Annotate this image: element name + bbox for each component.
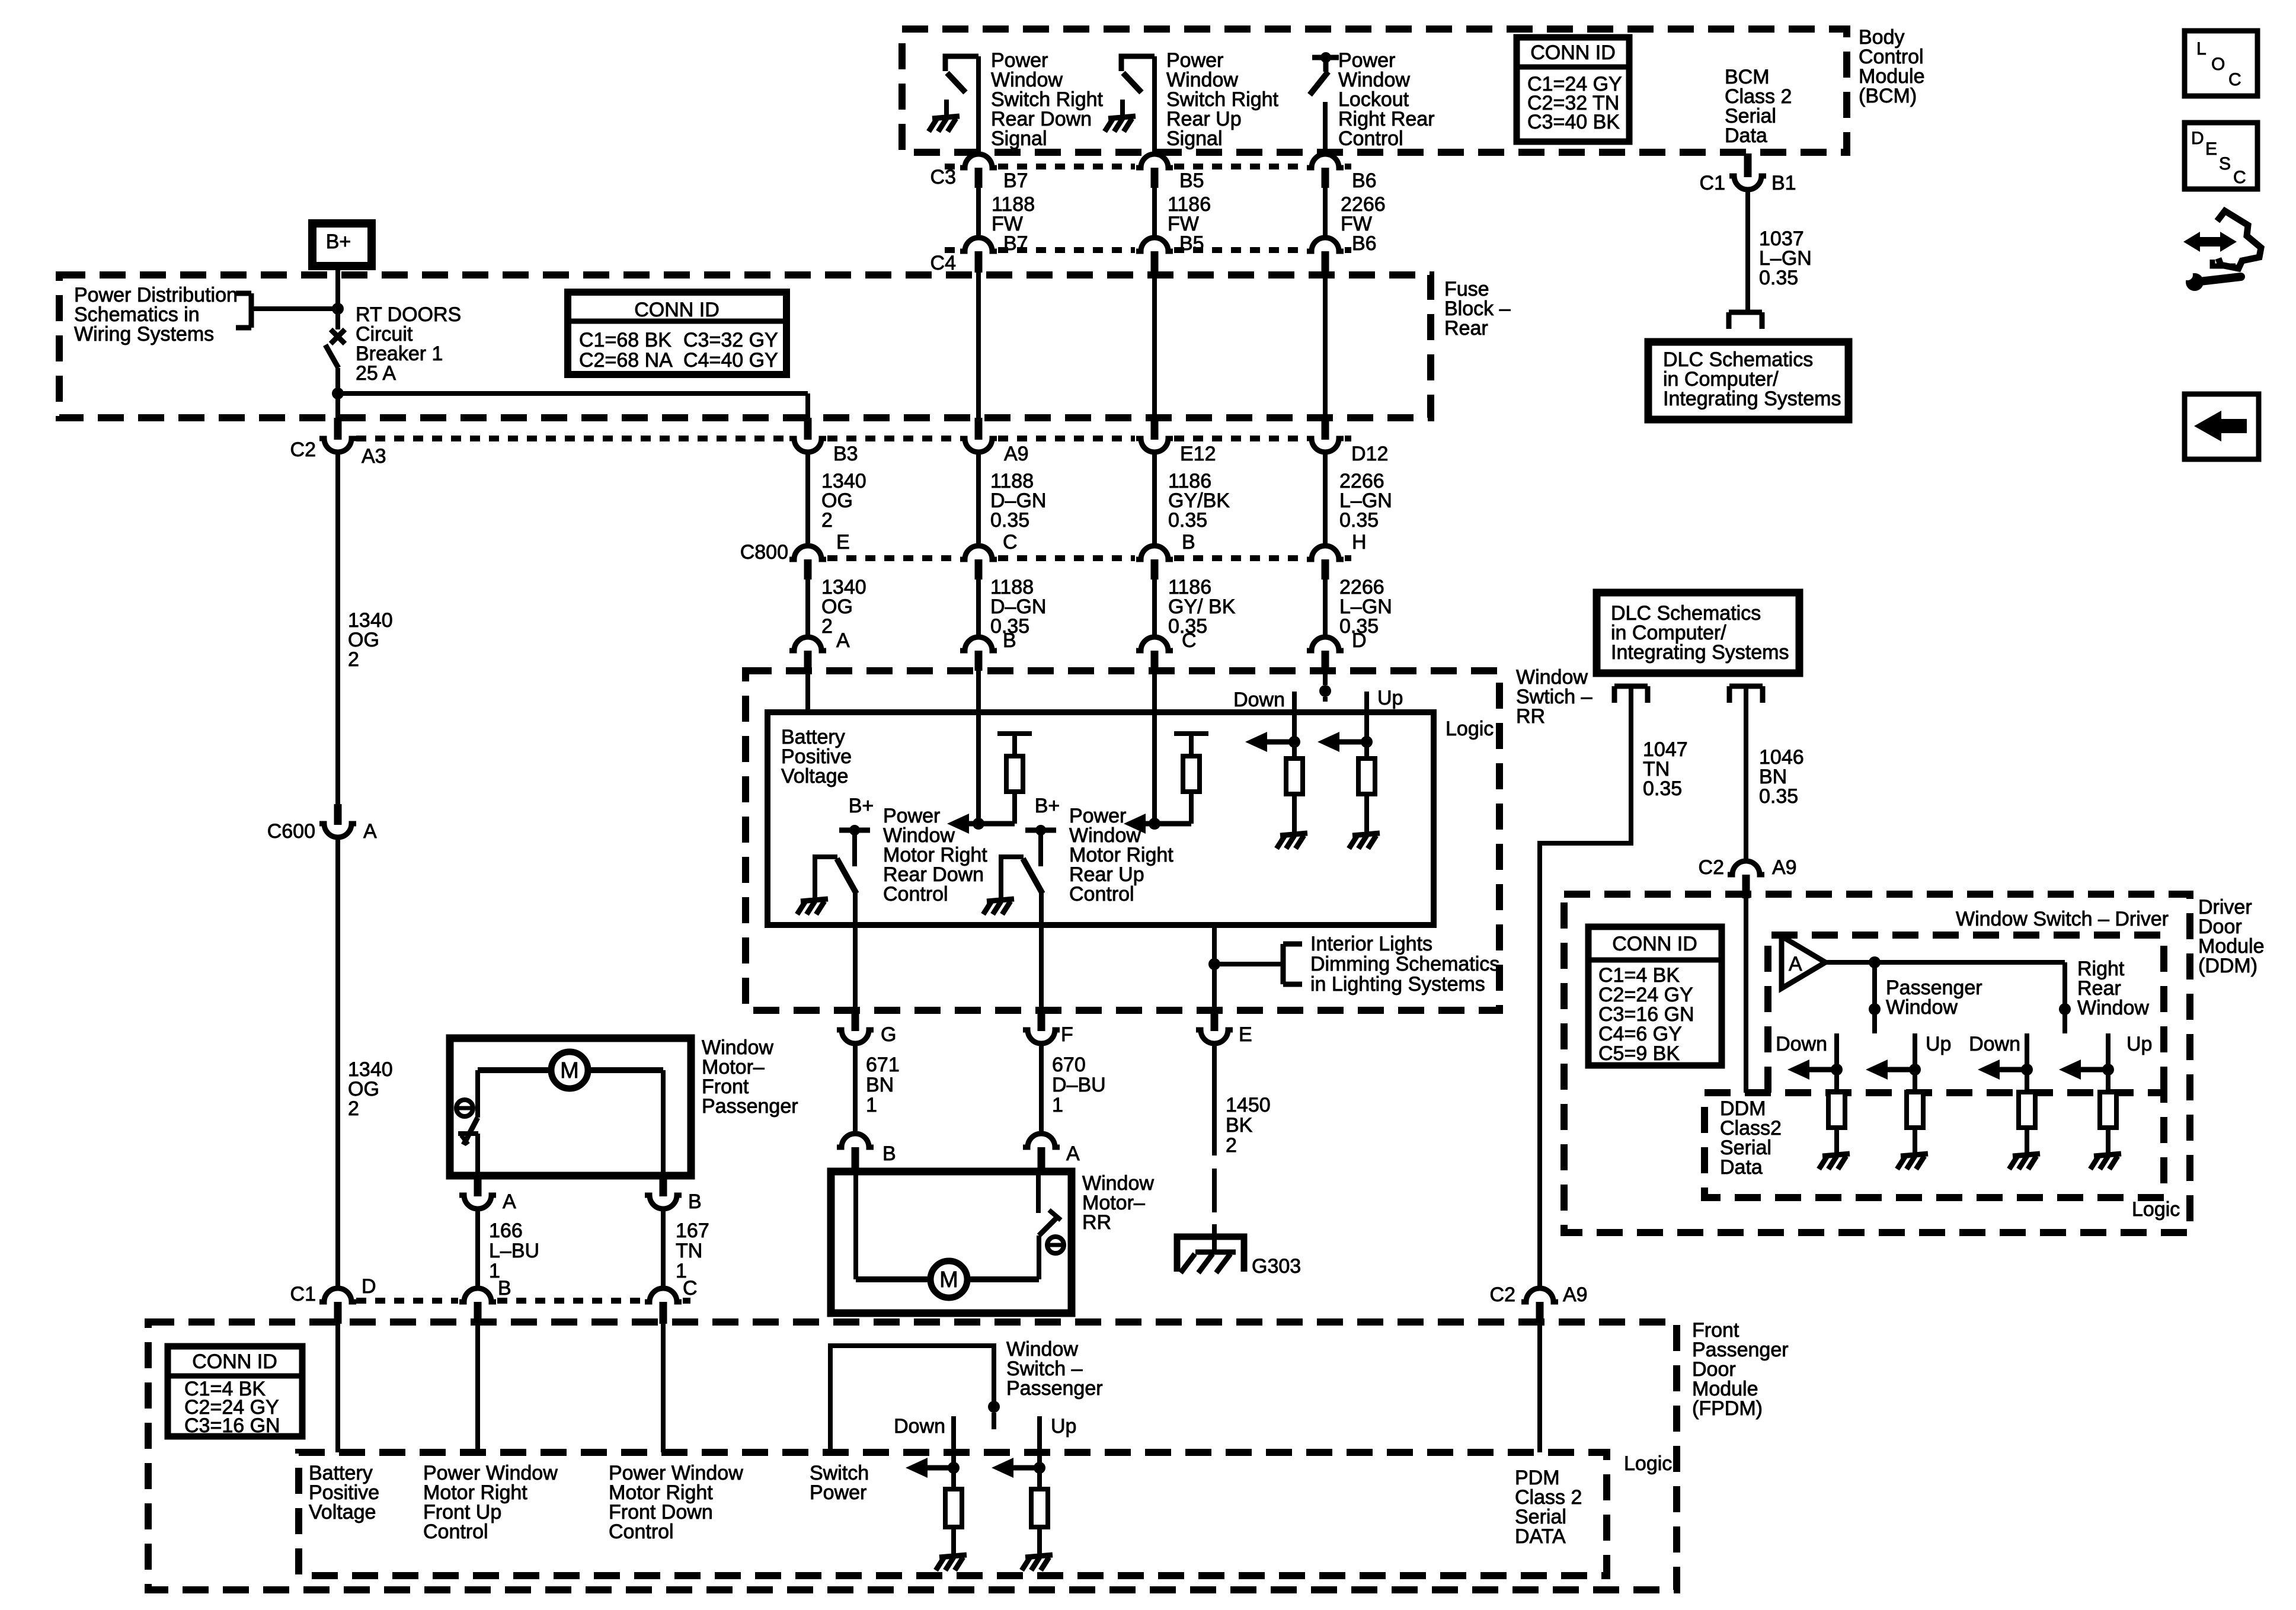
label BCM Class 2 Serial Data [1725,66,1792,147]
wire junction down to C2 [335,393,340,418]
svg-text:B+: B+ [326,231,351,253]
wire motor-RR left branch [856,1172,932,1279]
label wire 1188 D-GN 0.35 [990,470,1046,532]
wire E output [1212,925,1217,1010]
svg-text:C1: C1 [1700,172,1725,194]
label DDM Class2 Serial Data [1720,1097,1782,1179]
label Driver Door Module (DDM) [2198,896,2265,977]
wire switch common stub [992,1413,996,1429]
node junction Up [1361,736,1373,748]
wire Up (pass) (DDM) [1913,1033,1917,1092]
label Power Window Motor Right Front Up Control [423,1462,558,1543]
node junction Down (RR) [2021,1064,2033,1076]
label Up (DDM pass) [1926,1033,1951,1055]
wire switch power loop [830,1346,994,1452]
wire Down (RR) (DDM) [2025,1033,2029,1092]
op-amp buffer A [1782,936,1825,988]
label C1 [290,1283,316,1305]
label pin A (motor RR) [1066,1142,1080,1165]
label Fuse Block - Rear [1444,278,1511,340]
label Window Swtich - RR [1516,666,1593,728]
svg-text:E: E [2205,139,2217,159]
label Body Control Module (BCM) [1859,26,1925,107]
svg-text:C2: C2 [1699,856,1724,879]
component box Window Motor - Front Passenger [450,1038,691,1176]
label wire 2266 L-GN 0.35 (lower) [1339,576,1392,638]
label pin G [881,1023,896,1046]
svg-text:C800: C800 [740,541,788,564]
label PDM Class 2 Serial DATA [1515,1467,1582,1548]
label lockout switch [1338,49,1435,150]
wire lockout to C3 [1323,102,1328,155]
arrow Up (pass) sense [1866,1060,1915,1080]
connector C2/A9 (FPDM) [1521,1288,1558,1324]
logic box DDM Class2 Serial Data [1705,1093,2164,1198]
label Window Motor - Front Passenger [702,1036,798,1118]
label C800 [740,541,788,564]
label Up (WS-RR) [1377,687,1403,709]
resistor pull-up 2 [1174,734,1208,824]
ground Down (RR) [2009,1137,2040,1169]
connector C2 pin A9 [960,418,997,452]
wire 1340 OG 2 (C800-A) [805,580,810,637]
wire A3 down to C600 [335,452,340,804]
label A9 (FPDM) [1563,1283,1588,1306]
resistor Down (WS-RR) [1286,758,1303,817]
off-page bracket 1046 [1729,686,1763,703]
switch arm (motor RR) [1038,1172,1061,1235]
wire motor-front lower contact [475,1134,480,1176]
label Battery Positive Voltage (WS-RR) [781,726,852,788]
label Logic (WS-RR) [1446,718,1494,740]
label pin A (C600) [363,820,377,843]
wire motor-front right branch [589,1070,663,1176]
power feed B+ switch1 [839,825,870,866]
label C2 [290,438,316,461]
wire pin A into logic box [805,670,810,712]
svg-text:C600: C600 [267,820,315,843]
label C4 [930,252,956,274]
label pin E12 [1180,443,1216,465]
wire 1450 BK 2 (solid) [1212,1043,1217,1235]
label G303 [1252,1255,1301,1278]
label Up (FPDM) [1051,1415,1076,1438]
svg-text:BatteryPositiveVoltage: BatteryPositiveVoltage [781,726,852,788]
connector C800 pin [789,546,826,580]
svg-text:D: D [2191,129,2204,148]
svg-text:B5: B5 [1179,169,1204,192]
motor M (RR) [930,1261,967,1298]
label wire 1340 OG 2 (upper left) [348,609,393,671]
svg-text:Down: Down [1969,1033,2020,1055]
module box Window Swtich - RR [746,671,1499,1010]
label pin B (motor RR) [882,1142,896,1165]
wire bracket to B+ wire [251,306,335,311]
label Interior Lights Dimming Schematics [1310,933,1499,996]
svg-text:BatteryPositiveVoltage: BatteryPositiveVoltage [309,1462,379,1523]
ground Down (FPDM) [936,1538,967,1570]
label B+ (switch1) [849,795,874,817]
wire C600 down to C1 [335,837,340,1288]
label C3 [930,166,956,188]
ground Up (FPDM) [1022,1538,1053,1570]
label pin H (C800) [1352,531,1367,553]
connector window-switch pin A [789,637,826,671]
ground Up (pass) [1897,1137,1928,1169]
ground Down (pass) [1819,1137,1850,1169]
svg-text:CONN ID: CONN ID [1612,933,1697,955]
connector motor-RR pin B [837,1134,874,1172]
label wire 1186 GY/ BK 0.35 (lower) [1168,576,1236,638]
note bracket Power Distribution [236,293,251,328]
label wire 1340 OG 2 (B3) [821,470,866,532]
svg-text:C2: C2 [290,438,316,461]
label pin F [1061,1023,1073,1046]
label pin B7 [1003,169,1028,192]
wire right rear window stub [2062,962,2067,1033]
svg-text:H: H [1352,531,1367,553]
label Window Switch - Driver [1956,908,2169,930]
label pin B (C1) [498,1277,511,1299]
power symbol B+ [312,223,372,266]
label pin A (motor front) [503,1190,516,1213]
wire 166 L-BU 1 [475,1208,480,1288]
label Down (FPDM) [894,1415,945,1438]
label pin B6 (C4) [1352,232,1377,255]
svg-text:CONN ID: CONN ID [1530,41,1616,64]
connector C2 pin D12 [1307,418,1344,452]
connector C2 pin E12 [1136,418,1173,452]
connector motor-front pin B [645,1176,682,1209]
reference box DLC Schematics (top) [1648,342,1849,420]
node junction Down [1288,736,1300,748]
label B+ (switch2) [1035,795,1060,817]
label switch 2 [1166,49,1279,150]
svg-text:Down: Down [1233,689,1285,711]
ground Down (WS-RR) [1277,817,1307,849]
connector C2/A9 (DDM) [1728,861,1764,898]
off-page bracket 1047 [1614,686,1648,703]
svg-text:C3: C3 [930,166,956,188]
node junction breaker output [332,388,344,399]
label wire 1340 OG 2 (lower) [821,576,866,638]
label wire 1037 L-GN 0.35 [1759,228,1812,289]
wire col E12 in fuse block [1152,271,1157,418]
label pin B (switch) [1003,629,1016,652]
svg-text:M: M [560,1058,579,1083]
label DLC Schematics (middle) [1611,602,1789,664]
svg-text:C2: C2 [1490,1283,1515,1306]
label pin D (C1) [362,1275,376,1298]
connector C1/B1 (BCM) [1729,153,1766,190]
label pin D (switch) [1352,629,1367,652]
svg-text:B1: B1 [1771,172,1796,194]
wire 1186 GY/ BK (C800-C) [1152,580,1157,637]
connector door harness pin [1196,1010,1233,1044]
connector C800 pin [1307,546,1344,580]
label Switch Power [810,1462,869,1504]
label Battery Positive Voltage (FPDM) [309,1462,379,1523]
svg-text:A: A [1789,953,1802,975]
label pin B6 [1352,169,1377,192]
wire Up (RR) (DDM) [2106,1033,2110,1092]
connector window-switch pin C [1136,637,1173,671]
icon LOC [2185,31,2257,96]
svg-text:Up: Up [2126,1033,2152,1055]
label pin E (door) [1239,1023,1252,1046]
label Down (DDM pass) [1776,1033,1827,1055]
svg-text:A: A [503,1190,516,1213]
wire 671 BN 1 [853,1043,858,1134]
node junction Up (FPDM) [1034,1462,1045,1474]
wire switch2 output F [1039,892,1044,1010]
svg-text:E12: E12 [1180,443,1216,465]
node junction B/resistor [973,818,984,830]
label wire 1186 FW [1168,193,1211,235]
wire switch1 output G [853,892,858,1010]
svg-text:B6: B6 [1352,232,1377,255]
svg-text:D12: D12 [1351,443,1388,465]
connector motor-RR pin A [1023,1134,1060,1172]
arrow Up sense (FPDM) [992,1458,1040,1478]
connector C4 pin B7 [960,238,997,273]
svg-text:C1=68 BK: C1=68 BK [579,329,671,351]
label Passenger Window [1886,977,1982,1019]
wire Down (FPDM) [951,1416,956,1489]
connector motor-front pin A [459,1176,496,1209]
resistor Up (WS-RR) [1358,758,1375,817]
svg-text:C: C [2233,168,2246,187]
arrow Down (pass) sense [1787,1060,1837,1080]
power feed B+ switch2 [1025,825,1056,866]
connector door harness pin [837,1010,874,1044]
connector C2 pin A3 [319,418,356,452]
label wire 1186 GY/BK 0.35 [1168,470,1230,532]
switch Power Window Lockout Right Rear Control [1310,52,1339,95]
svg-text:Down: Down [894,1415,945,1438]
icon vehicle double arrow [2183,232,2237,252]
node junction interior lights [1208,958,1220,970]
wire 1340 OG 2 (B3-C800) [805,452,810,545]
label Window Switch - Passenger [1006,1338,1103,1400]
wire buffer output bus [1825,960,2065,965]
svg-text:B: B [688,1190,702,1213]
svg-text:Window Switch – Driver: Window Switch – Driver [1956,908,2169,930]
wire motor-front left branch [478,1070,551,1118]
conn-id table DDM [1588,927,1722,1065]
node junction right rear window [2059,1003,2071,1015]
label wire 1188 D-GN 0.35 (lower) [990,576,1046,638]
arrow Down sense (FPDM) [906,1458,954,1478]
label C2 (FPDM) [1490,1283,1515,1306]
ground Up (RR) [2090,1137,2121,1169]
svg-text:F: F [1061,1023,1073,1046]
svg-text:CONN ID: CONN ID [192,1350,277,1373]
module box Fuse Block - Rear [59,275,1431,418]
connector C4 pin B6 [1307,238,1344,273]
label Power Window Motor Right Rear Down Control [883,805,987,905]
circuit breaker RT DOORS Circuit Breaker 1 25 A [325,329,345,368]
icon DESC [2185,123,2257,189]
svg-text:B: B [1182,531,1195,553]
svg-text:D: D [362,1275,376,1298]
switch Power Window Switch Right Rear Down Signal [945,56,978,92]
wire 1186 GY/BK (E12-C800) [1152,452,1157,545]
label pin E (C800) [836,531,850,553]
label wire 1188 FW [992,193,1035,235]
label A9 (DDM) [1772,856,1797,879]
resistor Down (RR) [2019,1092,2035,1138]
breaker symbol (motor front) [456,1100,473,1116]
label Front Passenger Door Module (FPDM) [1692,1319,1789,1420]
resistor Up (RR) [2100,1092,2116,1138]
label pin B (C800) [1182,531,1195,553]
svg-text:G: G [881,1023,896,1046]
svg-text:G303: G303 [1252,1255,1301,1278]
svg-text:SwitchPower: SwitchPower [810,1462,869,1504]
wire col A9 in fuse block [976,271,981,418]
switch arm (motor front) [458,1118,478,1145]
svg-text:B7: B7 [1003,169,1028,192]
connector C600 pin A [319,804,356,837]
wire Up (FPDM) [1037,1416,1042,1489]
connector window-switch pin B [960,637,997,671]
label Power Window Motor Right Front Down Control [609,1462,743,1543]
switch contact to ground (switch1) [815,857,837,900]
wire battery feed D into logic [335,1323,340,1452]
label wire 1450 BK 2 [1226,1094,1271,1157]
wire 2266 L-GN (D12-C800) [1323,452,1328,545]
label wire 1046 BN 0.35 [1759,746,1804,808]
wire pin B to junction [976,670,981,824]
wire 2266 FW (C3-C4) [1323,188,1328,237]
label C2 (DDM) [1699,856,1724,879]
connector C3 pin B7 [960,154,997,188]
label wire 2266 L-GN 0.35 [1339,470,1392,532]
label pin A (switch) [836,629,850,652]
label pin A9 (fuse) [1004,443,1029,465]
node junction C/resistor [1149,818,1160,830]
svg-text:Up: Up [1051,1415,1076,1438]
label pin C (C800) [1003,531,1018,553]
label wire 1047 TN 0.35 [1643,738,1688,800]
connector C1 pin C [645,1288,682,1324]
label pin C (switch) [1182,629,1197,652]
label pin A3 [362,445,386,468]
svg-text:Up: Up [1926,1033,1951,1055]
wire breaker to junction [335,368,340,395]
label pin B3 [833,443,858,465]
connector row C800 [827,555,1351,561]
wire 1188 D-GN (C800-B) [976,580,981,637]
switch Power Window Switch Right Rear Up Signal [1121,56,1155,92]
label Up (DDM RR) [2126,1033,2152,1055]
connector window-switch pin D [1307,637,1344,671]
svg-text:A9: A9 [1004,443,1029,465]
ground (motor switch2) [983,882,1014,914]
wire 1188 FW (C3-C4) [976,188,981,237]
connector row C1 [356,1298,690,1304]
svg-text:O: O [2211,55,2225,74]
resistor Up (FPDM) [1031,1489,1048,1538]
svg-text:B6: B6 [1352,169,1377,192]
ground G303 [1177,1237,1244,1273]
module box Body Control Module (BCM) [902,29,1847,152]
reference box DLC Schematics (middle) [1597,593,1799,673]
svg-text:A9: A9 [1772,856,1797,879]
breaker symbol (motor RR) [1047,1237,1064,1253]
node junction Down (FPDM) [948,1462,960,1474]
svg-text:Up: Up [1377,687,1403,709]
wire 2266 L-GN (C800-D) [1323,580,1328,637]
svg-text:A: A [363,820,377,843]
label wire 166 L-BU 1 [489,1219,539,1282]
label pin B (motor front) [688,1190,702,1213]
wire switch2 to C3 [1152,56,1157,155]
arrow Down (RR) sense [1978,1060,2027,1080]
ground (motor switch1) [797,882,828,914]
svg-text:C2=68 NA: C2=68 NA [579,349,673,372]
svg-text:E: E [1239,1023,1252,1046]
resistor pull-up 1 [997,734,1032,824]
connector C3 pin B5 [1136,154,1173,188]
label Power Distribution Schematics in Wiring Systems [74,284,238,345]
label C1 (BCM) [1700,172,1725,194]
wire 167 TN 1 [661,1208,666,1288]
svg-text:S: S [2219,154,2231,174]
wire passenger window stub [1869,962,1881,1033]
module box Driver Door Module (DDM) [1564,894,2190,1233]
node junction passenger window [1869,956,1881,968]
wire Down (pass) (DDM) [1834,1033,1839,1092]
svg-text:B: B [1003,629,1016,652]
svg-text:A9: A9 [1563,1283,1588,1306]
label Power Window Motor Right Rear Up Control [1069,805,1173,905]
label Window Motor - RR [1082,1172,1154,1234]
wire 1186 FW (C3-C4) [1152,188,1157,237]
svg-text:B3: B3 [833,443,858,465]
wire to interior lights bracket [1214,962,1283,966]
wire motor-RR right branch [965,1235,1039,1279]
svg-text:Logic: Logic [2132,1198,2180,1221]
label Down (DDM RR) [1969,1033,2020,1055]
label pin C (C1) [683,1277,698,1299]
label RT DOORS Circuit Breaker 1 25 A [356,303,461,385]
logic box (FPDM) [299,1452,1607,1576]
connector C2 pin B3 [789,418,826,452]
wire 1037 L-GN 0.35 [1745,188,1750,312]
svg-text:C: C [1182,629,1197,652]
wire 1046 BN 0.35 [1744,686,1748,861]
svg-text:Down: Down [1776,1033,1827,1055]
logic box Window Switch - Driver [1768,935,2164,1093]
resistor Up (pass) [1907,1092,1923,1138]
arrow drive to switch2 [1124,814,1191,834]
wire switch1 to C3 [976,56,981,155]
wire A9 into DDM class2 box [1744,896,1748,1093]
svg-text:A: A [836,629,850,652]
svg-text:CONN ID: CONN ID [634,299,720,321]
switch contact to ground (switch2) [1001,857,1024,900]
resistor Down (FPDM) [945,1489,962,1538]
arrow Up sense [1318,732,1367,752]
icon vehicle outline [2212,211,2261,268]
wire bus breaker to B3 column [338,393,808,418]
icon wrench [2182,270,2241,291]
logic box (WS-RR) [768,712,1434,925]
wire A9 into FPDM logic [1537,1323,1542,1452]
connector door harness pin [1023,1010,1060,1044]
